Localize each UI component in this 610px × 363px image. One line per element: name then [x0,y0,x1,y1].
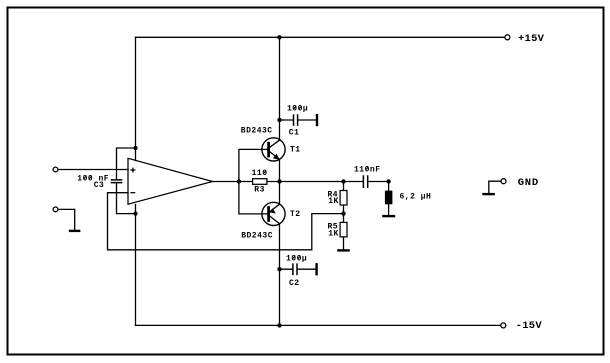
svg-text:C1: C1 [289,129,300,138]
svg-text:GND: GND [518,177,539,189]
svg-text:1K: 1K [328,197,339,206]
svg-text:110: 110 [252,169,268,178]
svg-text:100µ: 100µ [287,105,308,114]
svg-text:110nF: 110nF [354,166,381,175]
svg-text:R3: R3 [254,186,265,195]
svg-text:T2: T2 [290,210,301,219]
svg-text:BD243C: BD243C [241,232,273,241]
svg-text:C2: C2 [289,279,300,288]
svg-text:1K: 1K [328,230,339,239]
svg-text:BD243C: BD243C [241,127,273,136]
svg-text:-15V: -15V [516,320,543,332]
svg-text:+15V: +15V [518,33,545,45]
svg-text:C3: C3 [94,181,105,190]
svg-text:100µ: 100µ [286,254,307,263]
svg-text:T1: T1 [290,146,301,155]
svg-text:6,2 µH: 6,2 µH [400,192,432,201]
